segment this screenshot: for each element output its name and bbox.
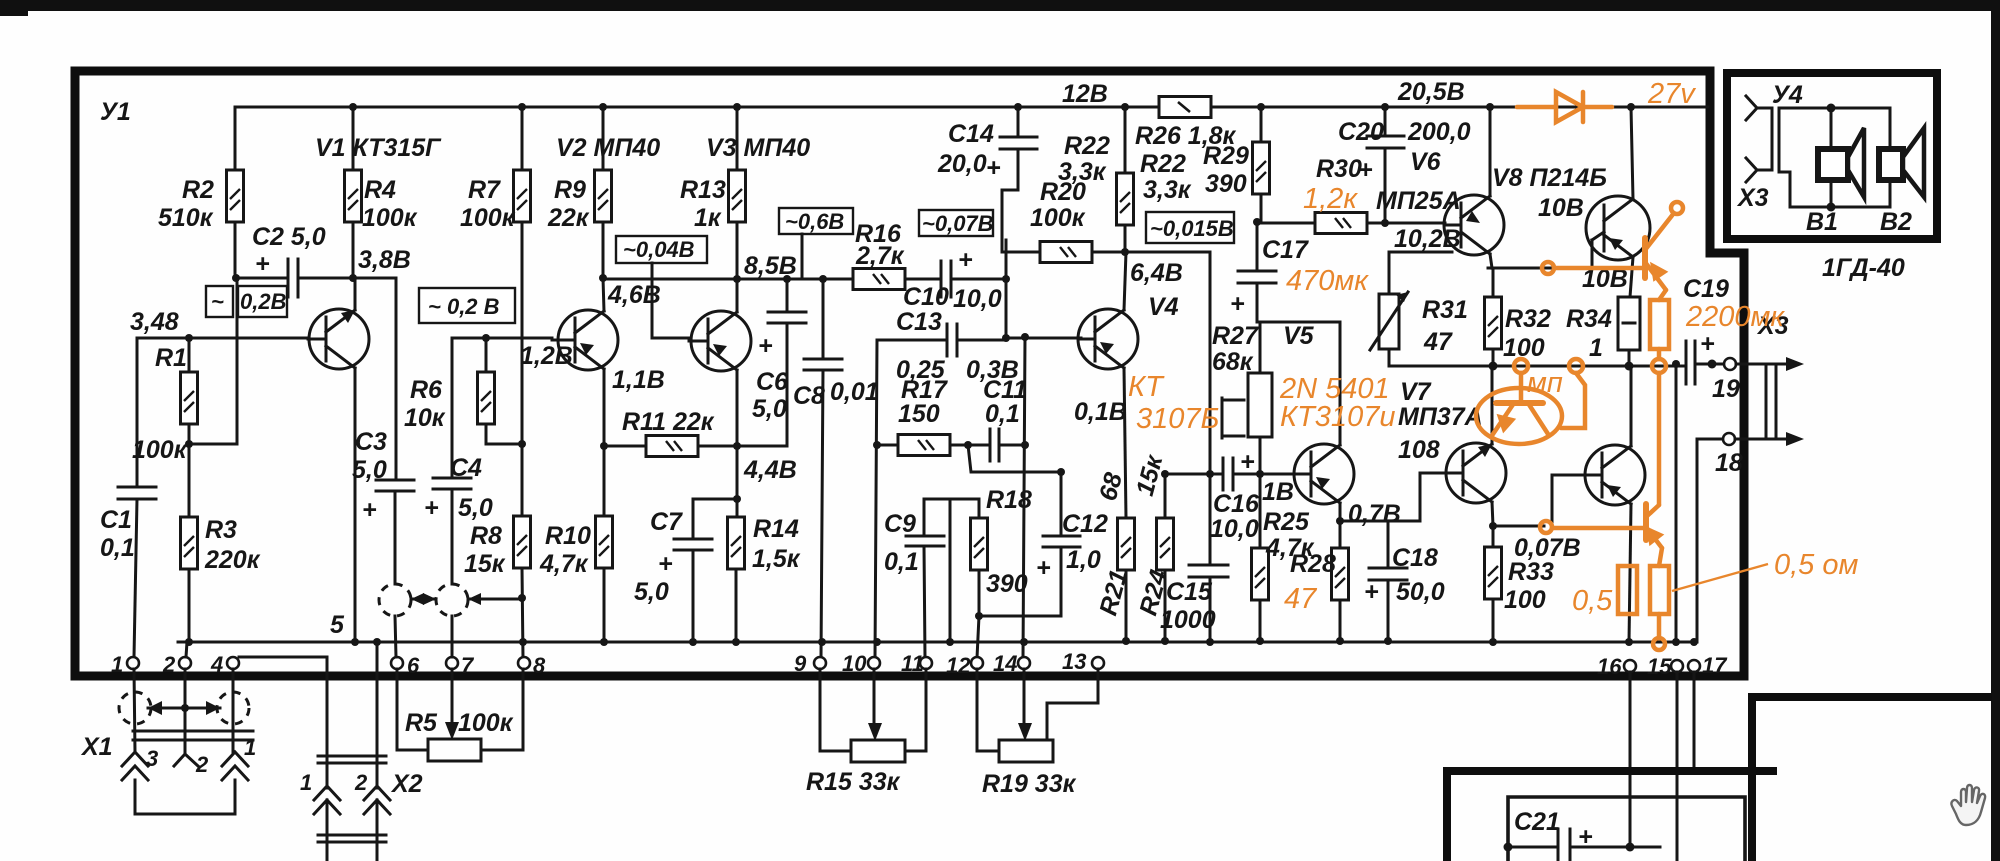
svg-text:C2 5,0: C2 5,0 bbox=[252, 223, 326, 251]
resistor R27 bbox=[1248, 373, 1272, 437]
output 19 bbox=[1724, 358, 1736, 370]
wire R4 bottom to collector node bbox=[352, 222, 355, 278]
resistor R17 bbox=[898, 435, 950, 456]
wire node down to R1/R3 junction bbox=[189, 278, 237, 444]
svg-text:+: + bbox=[1578, 823, 1593, 851]
svg-text:R30: R30 bbox=[1316, 155, 1362, 183]
svg-text:0,1: 0,1 bbox=[985, 400, 1020, 428]
svg-text:6: 6 bbox=[407, 653, 420, 678]
wire R20 right to R22 bottom node bbox=[1092, 251, 1210, 254]
svg-text:~: ~ bbox=[211, 289, 224, 314]
transistor V3 bbox=[689, 279, 751, 517]
svg-text:X3: X3 bbox=[1736, 184, 1769, 212]
speaker B2 bbox=[1879, 128, 1924, 197]
resistor R18 bbox=[978, 499, 981, 518]
svg-text:12В: 12В bbox=[1062, 80, 1108, 108]
X1 bottom loop bbox=[135, 780, 235, 814]
svg-text:1,2к: 1,2к bbox=[1303, 183, 1358, 215]
orange wire to ground bbox=[1653, 614, 1665, 650]
transistor V4 bbox=[1078, 252, 1138, 518]
boxed label ~0,015В bbox=[1146, 212, 1234, 243]
wire R13 bottom bbox=[736, 222, 739, 279]
svg-text:1,1В: 1,1В bbox=[612, 366, 665, 394]
wire collector rail 8,5V bbox=[603, 278, 823, 281]
resistor R10 bbox=[600, 442, 608, 450]
svg-text:R27: R27 bbox=[1212, 322, 1259, 350]
svg-text:R25: R25 bbox=[1263, 508, 1310, 536]
svg-text:+: + bbox=[424, 494, 439, 522]
svg-text:+: + bbox=[1364, 578, 1379, 606]
capacitor C13 bbox=[946, 324, 949, 356]
svg-text:10,2В: 10,2В bbox=[1394, 225, 1461, 253]
wire C6 bottom to R11 right bbox=[737, 445, 787, 448]
svg-text:0,5 ом: 0,5 ом bbox=[1774, 549, 1858, 581]
svg-text:3107Б: 3107Б bbox=[1136, 403, 1219, 435]
svg-text:100к: 100к bbox=[458, 709, 514, 737]
pins 6 7 8 bbox=[391, 657, 403, 669]
svg-text:В2: В2 bbox=[1880, 208, 1912, 236]
svg-text:100: 100 bbox=[1504, 586, 1546, 614]
svg-text:R5: R5 bbox=[405, 709, 438, 737]
dashed jumper circles (shield links) bbox=[379, 584, 522, 616]
wire pin2 to bus bbox=[186, 642, 187, 657]
speaker module border bbox=[1727, 73, 1937, 239]
output rail (thick) bbox=[1389, 365, 1683, 368]
capacitor C12 bbox=[1060, 472, 1063, 536]
svg-text:R28: R28 bbox=[1290, 550, 1336, 578]
svg-text:C21: C21 bbox=[1514, 808, 1560, 836]
main box border bbox=[75, 71, 1744, 676]
svg-text:5,0: 5,0 bbox=[458, 494, 493, 522]
svg-text:R14: R14 bbox=[753, 515, 799, 543]
svg-text:C6: C6 bbox=[756, 368, 789, 396]
svg-text:C13: C13 bbox=[896, 308, 942, 336]
svg-text:~0,6В: ~0,6В bbox=[785, 209, 844, 234]
orange transistor 2 (lower) bbox=[1540, 504, 1662, 566]
wire R8 bottom to pin8 node bbox=[522, 568, 523, 658]
rheostat R31 bbox=[1379, 294, 1399, 349]
svg-text:V8 П214Б: V8 П214Б bbox=[1492, 164, 1607, 192]
wire vertical x=1025 (to pin 14) bbox=[1023, 337, 1025, 658]
svg-text:5,0: 5,0 bbox=[752, 395, 787, 423]
wire base line to V1 bbox=[137, 337, 308, 340]
svg-text:200,0: 200,0 bbox=[1407, 118, 1471, 146]
boxed label ~0,2В (first) bbox=[206, 286, 233, 317]
resistor R21 bbox=[1118, 518, 1135, 570]
wire top bus left segment bbox=[235, 107, 1159, 170]
svg-text:50,0: 50,0 bbox=[1396, 578, 1445, 606]
svg-text:R3: R3 bbox=[205, 516, 237, 544]
svg-text:C15: C15 bbox=[1166, 578, 1213, 606]
svg-text:68к: 68к bbox=[1212, 348, 1254, 376]
svg-text:R2: R2 bbox=[182, 176, 214, 204]
svg-text:C19: C19 bbox=[1683, 275, 1729, 303]
svg-text:C1: C1 bbox=[100, 506, 132, 534]
svg-text:МП37А: МП37А bbox=[1398, 403, 1483, 431]
svg-text:3,3к: 3,3к bbox=[1143, 176, 1192, 204]
wire top bus right segment bbox=[1211, 106, 1708, 109]
svg-text:+: + bbox=[658, 550, 673, 578]
wire V7 emitter to R33, 0,07V node bbox=[1489, 522, 1497, 530]
resistor R6 bbox=[482, 334, 490, 342]
svg-text:C16: C16 bbox=[1213, 490, 1260, 518]
wire C9/R18 top rail bbox=[924, 498, 979, 501]
orange 0,5 resistors bbox=[1618, 566, 1637, 614]
wire R29 bottom to C17 node and to 1,2k bbox=[1260, 194, 1263, 222]
capacitor C1 bbox=[136, 338, 139, 487]
svg-text:V5: V5 bbox=[1283, 322, 1315, 350]
svg-text:1: 1 bbox=[300, 770, 312, 795]
svg-text:100к: 100к bbox=[460, 204, 516, 232]
wire R2 bottom to C2 node bbox=[234, 222, 237, 278]
wire x=950 to bus bbox=[949, 499, 952, 642]
svg-text:10,0: 10,0 bbox=[1210, 515, 1259, 543]
wire stub box 0,6 down bbox=[801, 234, 804, 279]
resistor R2 bbox=[227, 170, 244, 222]
svg-text:У1: У1 bbox=[100, 98, 131, 126]
wire R31 top jog bbox=[1389, 252, 1452, 294]
svg-text:R18: R18 bbox=[986, 486, 1032, 514]
svg-text:8,5В: 8,5В bbox=[744, 252, 797, 280]
svg-text:C4: C4 bbox=[450, 454, 482, 482]
module box corner (thick) bbox=[1447, 771, 1777, 861]
resistor R14 bbox=[728, 517, 745, 569]
wire V4 base bbox=[1006, 337, 1081, 340]
svg-text:15к: 15к bbox=[464, 550, 506, 578]
resistor R4 bbox=[345, 170, 362, 222]
svg-text:1,5к: 1,5к bbox=[752, 545, 801, 573]
resistor R9 bbox=[595, 170, 612, 222]
svg-text:2: 2 bbox=[162, 652, 176, 677]
resistor R26 (series in bus) bbox=[1159, 97, 1211, 118]
svg-text:2,7к: 2,7к bbox=[855, 242, 905, 270]
capacitor C18 bbox=[1340, 521, 1388, 568]
svg-text:R32: R32 bbox=[1505, 305, 1551, 333]
wire R9 bottom to V2 collector node bbox=[602, 222, 605, 278]
capacitor C10 bbox=[905, 278, 939, 281]
input forks bbox=[1746, 96, 1772, 182]
svg-text:R11 22к: R11 22к bbox=[622, 408, 715, 436]
svg-text:+: + bbox=[986, 154, 1001, 182]
svg-text:R13: R13 bbox=[680, 176, 726, 204]
module box corner 2 (thick) bbox=[1752, 697, 1992, 861]
orange rings on rail bbox=[1514, 359, 1528, 373]
resistor R32 bbox=[1485, 297, 1502, 349]
boxed label ~0,07В bbox=[919, 210, 993, 236]
resistor R7 bbox=[514, 170, 531, 222]
resistor R30 (1,2к) bbox=[1315, 213, 1367, 234]
resistor R24 bbox=[1157, 518, 1174, 570]
svg-text:+: + bbox=[1700, 330, 1715, 358]
svg-text:108: 108 bbox=[1398, 436, 1440, 464]
svg-text:R1: R1 bbox=[155, 344, 187, 372]
svg-text:~0,015В: ~0,015В bbox=[1150, 216, 1234, 241]
wire 3,8V node to C3 top bbox=[353, 277, 396, 280]
svg-text:1к: 1к bbox=[694, 204, 722, 232]
svg-text:0,01: 0,01 bbox=[830, 378, 879, 406]
connector bracket lines bbox=[1765, 366, 1768, 437]
capacitor C17 bbox=[1256, 222, 1259, 271]
svg-text:11: 11 bbox=[901, 651, 924, 676]
svg-text:0,7В: 0,7В bbox=[1348, 500, 1401, 528]
wire shield circles to pins 6,7 bbox=[395, 616, 396, 657]
svg-text:100к: 100к bbox=[362, 204, 418, 232]
svg-text:16: 16 bbox=[1597, 654, 1622, 679]
svg-text:10: 10 bbox=[842, 651, 867, 676]
boxed label ~0,04В bbox=[616, 236, 707, 263]
svg-text:C14: C14 bbox=[948, 120, 994, 148]
svg-text:470мк: 470мк bbox=[1286, 265, 1369, 297]
resistor R11 bbox=[646, 436, 698, 457]
wire x=1006 box stub down bbox=[1005, 240, 1008, 338]
svg-text:C9: C9 bbox=[884, 510, 916, 538]
wires pins 16,15,17 down bbox=[1629, 672, 1632, 847]
svg-text:220к: 220к bbox=[204, 546, 261, 574]
svg-text:R19 33к: R19 33к bbox=[982, 770, 1077, 798]
svg-text:КТ: КТ bbox=[1128, 371, 1165, 403]
capacitor C14 bbox=[1017, 107, 1020, 137]
svg-text:1: 1 bbox=[244, 735, 256, 760]
transistor V2 bbox=[552, 278, 618, 446]
resistor R22 bbox=[1117, 173, 1134, 225]
wire C12 bottom to R18 bottom bbox=[979, 615, 1061, 618]
wire long vertical x=1210 with C15 bbox=[1209, 252, 1212, 565]
svg-text:0,5: 0,5 bbox=[1572, 585, 1613, 617]
svg-text:+: + bbox=[1036, 554, 1051, 582]
capacitor C20 bbox=[1384, 107, 1387, 136]
svg-text:8: 8 bbox=[533, 653, 546, 678]
svg-text:1: 1 bbox=[111, 652, 123, 677]
svg-text:R6: R6 bbox=[410, 376, 443, 404]
wiring loop bbox=[1779, 108, 1890, 207]
wire R6 bottom jog to R8 node bbox=[486, 424, 522, 444]
svg-text:100к: 100к bbox=[1030, 204, 1086, 232]
svg-text:390: 390 bbox=[1205, 170, 1247, 198]
transistor V9 lower output bbox=[1552, 366, 1645, 646]
svg-text:+: + bbox=[1358, 156, 1373, 184]
top black browser bar bbox=[0, 0, 2000, 11]
svg-text:У4: У4 bbox=[1772, 81, 1803, 109]
svg-text:R29: R29 bbox=[1203, 142, 1249, 170]
capacitor C11 bbox=[989, 429, 992, 461]
svg-text:510к: 510к bbox=[158, 204, 214, 232]
svg-text:1ГД-40: 1ГД-40 bbox=[1822, 254, 1905, 282]
wire pin4 jog to X2 bbox=[239, 657, 327, 788]
capacitor C2 bbox=[237, 277, 288, 280]
svg-text:1,2В: 1,2В bbox=[520, 342, 573, 370]
transistor V6 bbox=[1444, 103, 1504, 268]
svg-text:+: + bbox=[1230, 290, 1245, 318]
resistor R34 bbox=[1618, 297, 1640, 350]
svg-text:1,0: 1,0 bbox=[1066, 546, 1101, 574]
resistor R25 bbox=[1252, 548, 1269, 600]
svg-text:+: + bbox=[1240, 448, 1255, 476]
svg-text:4: 4 bbox=[210, 652, 223, 677]
wire left column x=877 bbox=[875, 340, 877, 658]
svg-text:1: 1 bbox=[1589, 334, 1603, 362]
svg-text:47: 47 bbox=[1284, 583, 1318, 615]
svg-text:R15 33к: R15 33к bbox=[806, 768, 901, 796]
capacitor C7 bbox=[693, 499, 737, 539]
svg-text:C18: C18 bbox=[1392, 544, 1438, 572]
cable double line bbox=[1771, 108, 1774, 170]
resistor R1 bbox=[188, 338, 191, 372]
resistor R29 bbox=[1253, 142, 1270, 194]
svg-text:R4: R4 bbox=[364, 176, 396, 204]
wire pin15 riser to output bbox=[1675, 364, 1678, 642]
wire C17 node to V5 collector bbox=[1257, 321, 1340, 324]
wire R4 top to bus bbox=[352, 107, 355, 170]
svg-text:20,5В: 20,5В bbox=[1397, 78, 1465, 106]
capacitor C3 bbox=[395, 278, 398, 480]
resistor R3 bbox=[181, 517, 198, 569]
svg-text:V1 КТ315Г: V1 КТ315Г bbox=[315, 134, 442, 162]
wire V6 emitter row y=268 bbox=[1488, 267, 1592, 270]
svg-text:R20: R20 bbox=[1040, 178, 1086, 206]
svg-text:~0,04В: ~0,04В bbox=[623, 237, 695, 262]
svg-text:10к: 10к bbox=[404, 404, 446, 432]
transistor V7 bbox=[1420, 366, 1506, 526]
diamond link bbox=[148, 707, 220, 710]
svg-text:R10: R10 bbox=[545, 522, 591, 550]
svg-text:+: + bbox=[255, 250, 270, 278]
svg-text:R22: R22 bbox=[1064, 132, 1110, 160]
resistor R13 bbox=[729, 170, 746, 222]
svg-text:4,7к: 4,7к bbox=[539, 550, 589, 578]
svg-text:R8: R8 bbox=[470, 522, 502, 550]
svg-text:15: 15 bbox=[1647, 654, 1672, 679]
svg-text:R31: R31 bbox=[1422, 296, 1468, 324]
svg-text:6,4В: 6,4В bbox=[1130, 259, 1183, 287]
svg-text:10В: 10В bbox=[1538, 194, 1584, 222]
resistor R28 bbox=[1332, 548, 1349, 600]
capacitor C9 bbox=[923, 499, 926, 536]
node R2/C2 bbox=[232, 274, 240, 282]
svg-text:V2 МП40: V2 МП40 bbox=[556, 134, 660, 162]
svg-text:1000: 1000 bbox=[1160, 606, 1216, 634]
transistor V8 bbox=[1586, 103, 1650, 297]
svg-text:~ 0,2 В: ~ 0,2 В bbox=[428, 294, 500, 319]
ground bus bbox=[178, 641, 1697, 644]
svg-text:7: 7 bbox=[461, 653, 475, 678]
svg-text:C12: C12 bbox=[1062, 510, 1108, 538]
svg-text:R34: R34 bbox=[1566, 305, 1612, 333]
svg-text:R33: R33 bbox=[1508, 558, 1554, 586]
node base/R1 bbox=[185, 334, 193, 342]
V5 aux bracket bbox=[1222, 400, 1244, 436]
svg-text:100к: 100к bbox=[132, 436, 188, 464]
wire step down to C12 bbox=[968, 445, 1061, 472]
pins 9 10 11 12 14 13 bbox=[814, 657, 826, 669]
V5 transistor (2N5401 area) bbox=[1294, 322, 1354, 521]
svg-text:5,0: 5,0 bbox=[352, 456, 387, 484]
capacitor C19 bbox=[1685, 341, 1688, 384]
orange transistor 1 (upper) bbox=[1542, 202, 1683, 300]
capacitor C21 bbox=[1508, 846, 1556, 849]
wire x=1697 vertical to ground bbox=[1696, 439, 1699, 642]
svg-text:2200мк: 2200мк bbox=[1685, 301, 1785, 333]
svg-text:C17: C17 bbox=[1262, 236, 1309, 264]
dashed circles bbox=[119, 692, 151, 724]
wire V9 base drop bbox=[1551, 475, 1554, 526]
capacitor C4 bbox=[451, 338, 454, 478]
orange resistor (upper, by R34) bbox=[1650, 300, 1669, 349]
svg-text:12: 12 bbox=[946, 653, 971, 678]
svg-text:14: 14 bbox=[993, 651, 1017, 676]
wire V5 emitter row to V7 base bbox=[1340, 473, 1420, 521]
wire R3 bottom to ground bus bbox=[188, 569, 191, 641]
capacitor C16 bbox=[1165, 473, 1221, 476]
capacitor C15 bbox=[1189, 564, 1228, 567]
svg-text:1В: 1В bbox=[1262, 478, 1294, 506]
output 18 bbox=[1697, 438, 1722, 441]
speaker B1 bbox=[1818, 128, 1864, 197]
wire V2 base from R6 node bbox=[452, 337, 552, 340]
chevrons bbox=[314, 786, 390, 814]
svg-text:150: 150 bbox=[898, 400, 940, 428]
svg-text:0,1: 0,1 bbox=[100, 534, 135, 562]
svg-text:C8: C8 bbox=[793, 382, 825, 410]
svg-text:5: 5 bbox=[330, 611, 345, 639]
svg-text:9: 9 bbox=[794, 651, 807, 676]
orange circled transistor (мп) bbox=[1476, 373, 1585, 444]
svg-text:3,48: 3,48 bbox=[130, 308, 179, 336]
svg-text:+: + bbox=[758, 332, 773, 360]
wire stub box 0,04 to V3 base bbox=[652, 263, 689, 338]
pins 1 2 4 bbox=[127, 657, 139, 669]
svg-text:0,2В: 0,2В bbox=[240, 289, 287, 314]
svg-text:4,4В: 4,4В bbox=[743, 456, 797, 484]
svg-text:R7: R7 bbox=[468, 176, 501, 204]
svg-text:10,0: 10,0 bbox=[953, 285, 1002, 313]
pins 16 15 17 bbox=[1624, 660, 1636, 672]
svg-text:0,1В: 0,1В bbox=[1074, 398, 1127, 426]
wire R1 bottom to node bbox=[188, 424, 191, 517]
svg-text:17: 17 bbox=[1702, 653, 1728, 678]
svg-text:3,8В: 3,8В bbox=[358, 246, 411, 274]
svg-text:+: + bbox=[362, 496, 377, 524]
svg-text:V4: V4 bbox=[1148, 293, 1179, 321]
svg-text:5,0: 5,0 bbox=[634, 578, 669, 606]
svg-text:КТ3107и: КТ3107и bbox=[1280, 401, 1395, 433]
svg-text:~0,07В: ~0,07В bbox=[922, 211, 994, 236]
capacitor C8 bbox=[819, 275, 827, 283]
resistor R33 bbox=[1485, 547, 1502, 599]
resistor R8 bbox=[521, 444, 524, 516]
svg-text:22к: 22к bbox=[547, 204, 590, 232]
transistor V1 bbox=[308, 278, 369, 641]
svg-text:20,0: 20,0 bbox=[937, 150, 987, 178]
svg-text:V7: V7 bbox=[1400, 378, 1432, 406]
svg-text:0,1: 0,1 bbox=[884, 548, 919, 576]
wire C13 rail bbox=[877, 339, 945, 342]
svg-text:47: 47 bbox=[1423, 328, 1453, 356]
boxed label ~0,6В bbox=[779, 208, 853, 234]
svg-text:X2: X2 bbox=[390, 770, 423, 798]
svg-text:R22: R22 bbox=[1140, 150, 1186, 178]
orange wire down to rail bbox=[1652, 349, 1666, 505]
svg-text:13: 13 bbox=[1062, 649, 1086, 674]
svg-text:18: 18 bbox=[1715, 449, 1743, 477]
svg-text:V6: V6 bbox=[1410, 148, 1442, 176]
svg-text:390: 390 bbox=[986, 570, 1028, 598]
svg-text:19: 19 bbox=[1712, 375, 1740, 403]
svg-text:27v: 27v bbox=[1647, 78, 1696, 110]
svg-text:2: 2 bbox=[354, 770, 368, 795]
boxed label ~0,2 В (second) bbox=[419, 288, 515, 323]
svg-text:В1: В1 bbox=[1806, 208, 1838, 236]
X1 cross bars bbox=[133, 730, 253, 733]
